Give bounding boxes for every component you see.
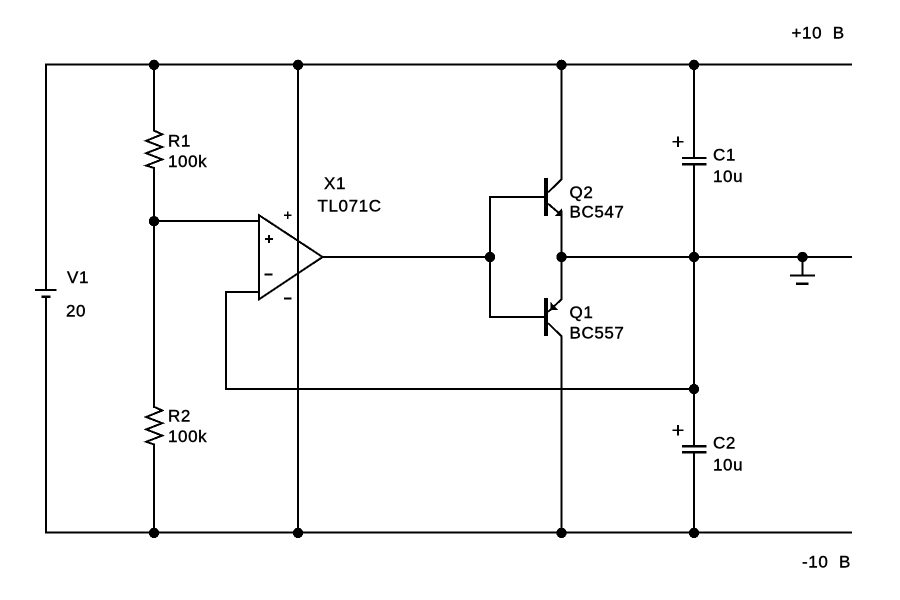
svg-text:X1: X1 [324,174,346,193]
capacitor C1 [682,158,707,164]
wire: -10V bottom rail [46,532,851,534]
svg-text:BC557: BC557 [570,324,625,343]
junction node emitters / mid rail [556,252,566,262]
transistor Q1 base bar [544,298,548,336]
junction node bottom rail / supply column [293,528,303,538]
svg-text:10u: 10u [713,456,743,475]
capacitor C1 polarity plus [673,136,684,147]
transistor Q1 emitter arrow [550,302,558,310]
wire: C column C1 to C2 [693,165,695,445]
op-amp non-inverting input plus mark [265,235,273,243]
junction node top rail / C1 [689,60,699,70]
wire: R column top rail to R1 [153,65,155,131]
wire: Q2 base wire [490,196,544,198]
capacitor C2 [682,446,707,452]
svg-text:C1: C1 [713,146,736,165]
wire: C column C2 to bottom rail [693,453,695,533]
wire: inverting input stub [226,291,259,293]
junction node op-amp output / base column [485,252,495,262]
svg-text:Q1: Q1 [570,303,594,322]
junction node A divider to op-amp input [149,216,159,226]
svg-text:R2: R2 [168,407,191,426]
junction node bottom rail / R column [149,528,159,538]
wire: R column R2 to bottom rail [153,444,155,532]
wire: op-amp output [323,256,490,258]
op-amp inverting input minus mark [265,273,273,275]
junction node mid rail / C column [689,252,699,262]
junction node feedback / C column [689,384,699,394]
wire: R column R1 to R2 [153,168,155,407]
wire: node A to op-amp non-inverting input [154,220,259,222]
op-amp U1 triangle [259,215,322,299]
transistor Q1 emitter [548,257,561,312]
wire: Q1 base wire [490,316,544,318]
capacitor C2 polarity plus [673,425,684,436]
wire: +10V top rail [46,64,851,66]
transistor Q2 emitter [548,204,561,257]
op-amp negative supply minus mark [284,298,292,300]
svg-text:-10 В: -10 В [802,553,851,572]
wire: C column top rail to C1 [693,65,695,158]
wire: op-amp supply column [297,65,299,533]
op-amp positive supply plus mark [284,211,292,219]
junction node top rail / R column [149,60,159,70]
junction node mid rail / ground [797,252,807,262]
wire: base column [489,197,491,317]
junction node bottom rail / Q1 collector [556,528,566,538]
junction node top rail / supply column [293,60,303,70]
svg-text:TL071C: TL071C [318,196,382,215]
junction node top rail / Q2 collector [556,60,566,70]
svg-text:R1: R1 [168,131,191,150]
svg-text:Q2: Q2 [570,183,594,202]
wire: left column above V1 [45,65,47,289]
junction node bottom rail / C2 [689,528,699,538]
svg-text:20: 20 [66,302,86,321]
svg-text:V1: V1 [67,268,89,287]
resistor R2 [146,407,162,445]
ground [790,257,815,284]
wire: feedback vertical [225,292,227,389]
transistor Q2 collector [548,65,561,193]
svg-text:+10 В: +10 В [792,24,845,43]
transistor Q1 collector [548,323,561,532]
svg-text:100k: 100k [168,152,207,171]
svg-text:BC547: BC547 [570,202,625,221]
wire: output mid rail to ground [562,256,852,258]
resistor R1 [146,131,162,168]
wire: left column below V1 [45,298,47,533]
transistor Q2 emitter arrow [555,208,563,216]
voltage source V1 [35,290,57,297]
svg-text:10u: 10u [713,167,743,186]
svg-text:100k: 100k [168,427,207,446]
transistor Q2 base bar [544,178,548,216]
svg-text:C2: C2 [713,434,736,453]
wire: feedback horizontal [226,388,694,390]
